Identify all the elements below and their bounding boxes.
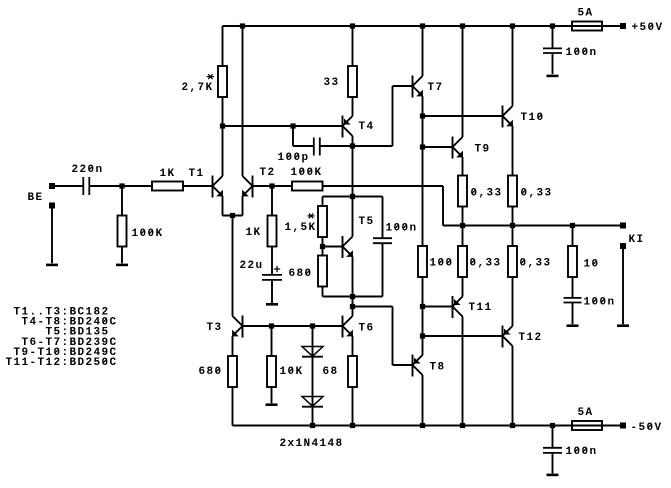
wire emitter join to T3 collector xyxy=(232,216,234,317)
svg-text:T9: T9 xyxy=(475,143,491,155)
node T11 base takeoff xyxy=(420,304,425,309)
wire to T8 base xyxy=(353,307,413,366)
ground 10K xyxy=(266,403,278,406)
svg-text:680: 680 xyxy=(199,366,223,378)
terminal KI return xyxy=(620,243,626,249)
svg-text:T2: T2 xyxy=(260,167,276,179)
node T8 feed xyxy=(350,304,355,309)
diode D2 xyxy=(302,357,323,426)
wire T5 base xyxy=(323,246,343,248)
capacitor 100n KI xyxy=(564,298,582,324)
plus 22u xyxy=(274,266,280,272)
svg-text:-50V: -50V xyxy=(631,422,663,434)
resistor 68 xyxy=(348,336,357,426)
resistor 2,7K xyxy=(218,66,227,97)
transistor T8 xyxy=(413,355,423,377)
wire T6 collector xyxy=(352,307,354,317)
wire to T10 base xyxy=(423,115,503,117)
transistor T1 xyxy=(213,176,223,198)
svg-text:220n: 220n xyxy=(72,164,104,176)
node 100p takeoff xyxy=(290,123,295,128)
asterisk 1,5K xyxy=(308,213,315,218)
node T2 base / 1K divider xyxy=(269,183,274,188)
terminal +50V xyxy=(620,23,626,29)
svg-text:100: 100 xyxy=(430,258,454,270)
resistor 680 left xyxy=(228,336,237,426)
transistor T5 xyxy=(343,236,353,258)
wire KI return xyxy=(622,249,624,324)
svg-text:T4: T4 xyxy=(359,121,375,133)
svg-text:0,33: 0,33 xyxy=(520,258,552,270)
terminal BE signal xyxy=(49,183,55,189)
node rail / T7 collector xyxy=(420,23,425,28)
wire T2 base to 100K xyxy=(253,185,293,187)
node bias top xyxy=(350,194,355,199)
wire emitter join xyxy=(223,215,243,217)
svg-text:2x1N4148: 2x1N4148 xyxy=(280,438,344,450)
svg-text:0,33: 0,33 xyxy=(471,188,503,200)
svg-text:2,7K: 2,7K xyxy=(182,82,214,94)
node rail / 68 xyxy=(350,423,355,428)
transistor T4 xyxy=(343,116,353,138)
svg-text:33: 33 xyxy=(324,77,340,89)
diode D1 xyxy=(302,326,323,357)
ground 100K input xyxy=(116,264,128,267)
wire -50V rail xyxy=(233,425,621,427)
wire 1,5K top to bias column xyxy=(323,196,353,198)
wire bias bottom row xyxy=(323,296,383,298)
svg-text:100n: 100n xyxy=(386,223,418,235)
wire to T11 base xyxy=(423,306,453,308)
wire to T9 base xyxy=(423,146,453,148)
wire T2 emitter xyxy=(242,196,244,216)
svg-text:100K: 100K xyxy=(132,228,164,240)
resistor 100K input xyxy=(118,186,127,263)
resistor 680 mid xyxy=(318,256,327,297)
resistor 0,33 upper right xyxy=(508,126,517,226)
svg-text:T10: T10 xyxy=(521,112,545,124)
ground 22u xyxy=(266,303,278,306)
svg-text:T1: T1 xyxy=(189,168,205,180)
svg-text:BE: BE xyxy=(28,192,44,204)
resistor 1K divider xyxy=(268,186,277,275)
wire 100p left xyxy=(293,126,313,146)
svg-text:1K: 1K xyxy=(160,168,176,180)
ground 100n bottom xyxy=(547,474,559,477)
transistor T2 xyxy=(242,176,252,198)
svg-text:T3: T3 xyxy=(207,322,223,334)
wire T11 collector xyxy=(462,317,464,426)
resistor 0,33 lower right xyxy=(508,226,517,278)
wire bias top row right xyxy=(353,196,383,198)
svg-text:0,33: 0,33 xyxy=(521,188,553,200)
node emitter join xyxy=(230,213,235,218)
asterisk 2,7K xyxy=(207,74,214,79)
node T1 collector / 2,7K xyxy=(220,123,225,128)
wire BE ground xyxy=(51,209,53,264)
ground BE xyxy=(46,264,58,267)
svg-text:1,5K: 1,5K xyxy=(285,222,317,234)
svg-text:0,33: 0,33 xyxy=(470,258,502,270)
svg-text:100n: 100n xyxy=(584,297,616,309)
node input bias xyxy=(119,183,124,188)
wire T8 emitter xyxy=(422,336,424,355)
wire +50V rail xyxy=(223,25,621,27)
node rail / T2 collector xyxy=(240,23,245,28)
node rail / T8 collector xyxy=(420,423,425,428)
wire T11 emitter xyxy=(462,277,464,297)
transistor T9 xyxy=(453,137,463,159)
capacitor 100n top xyxy=(543,26,562,74)
svg-text:T6: T6 xyxy=(359,323,375,335)
svg-text:100n: 100n xyxy=(566,47,598,59)
svg-text:100n: 100n xyxy=(566,446,598,458)
node T4 collector / 100p xyxy=(350,143,355,148)
zero slashes (DOS font style) xyxy=(55,24,652,452)
svg-text:22u: 22u xyxy=(240,260,264,272)
fuse 5A bottom xyxy=(572,421,602,430)
node T10 base takeoff xyxy=(420,113,425,118)
node KI / 10 xyxy=(570,223,575,228)
wire 1K to T1 base xyxy=(183,185,213,187)
svg-text:1K: 1K xyxy=(246,227,262,239)
wire T2 collector to rail xyxy=(242,26,244,176)
capacitor 100n bias xyxy=(373,197,392,297)
svg-text:T5: T5 xyxy=(359,216,375,228)
transistor T6 xyxy=(343,316,353,338)
wire feedback to KI xyxy=(323,186,444,226)
node rail / 33 resistor xyxy=(350,23,355,28)
node T12 base takeoff xyxy=(420,333,425,338)
resistor 10 xyxy=(568,226,577,298)
svg-text:T8: T8 xyxy=(430,362,446,374)
capacitor 100p xyxy=(314,138,320,156)
wire KI output line xyxy=(443,225,620,227)
fuse 5A top xyxy=(572,22,602,31)
svg-text:5A: 5A xyxy=(578,7,594,19)
transistor T12 xyxy=(503,326,513,348)
ground 100n KI xyxy=(567,324,579,327)
wire T12 collector xyxy=(512,346,514,426)
wire T7 collector xyxy=(422,26,424,76)
node rail / 100n top xyxy=(550,23,555,28)
node diode takeoff xyxy=(310,323,315,328)
terminal BE ground xyxy=(49,203,55,209)
resistor 33 xyxy=(348,26,357,116)
resistor 100 xyxy=(418,246,427,336)
node rail / T10 collector xyxy=(510,23,515,28)
node KI / 0,33 left xyxy=(460,223,465,228)
svg-text:T7: T7 xyxy=(428,82,444,94)
node T9 base takeoff xyxy=(420,144,425,149)
node rail / T9 collector xyxy=(460,23,465,28)
resistor 10K xyxy=(267,326,276,403)
resistor 1K input xyxy=(152,182,183,191)
wire T8 collector xyxy=(422,375,424,426)
capacitor 220n xyxy=(83,177,89,195)
wire T9 collector xyxy=(462,26,464,137)
wire T12 emitter xyxy=(512,277,514,326)
svg-text:T11: T11 xyxy=(469,302,493,314)
resistor 0,33 upper left xyxy=(458,157,467,226)
capacitor 100n bottom xyxy=(543,426,562,474)
svg-text:T11-T12:BD250C: T11-T12:BD250C xyxy=(6,357,118,369)
wire T1 emitter xyxy=(222,196,224,216)
terminal -50V xyxy=(620,423,626,429)
node rail / T12 collector xyxy=(510,423,515,428)
node rail / 100n bottom xyxy=(550,423,555,428)
wire T1 collector column xyxy=(222,26,224,176)
wire T4 collector column xyxy=(352,136,354,237)
ground 100n top xyxy=(547,75,559,78)
transistor T10 xyxy=(503,106,513,128)
wire 220n to 1K xyxy=(90,185,152,187)
node T5 base xyxy=(320,244,325,249)
resistor 100K feedback xyxy=(292,182,323,191)
node KI / 0,33 right xyxy=(510,223,515,228)
wire base bias row y=126 xyxy=(223,125,343,127)
wire T10 collector xyxy=(512,26,514,106)
wire 100p right xyxy=(320,145,352,147)
transistor T11 xyxy=(453,296,463,318)
terminal KI xyxy=(620,223,626,229)
transistor T3 xyxy=(232,316,242,338)
svg-text:680: 680 xyxy=(289,268,313,280)
svg-text:KI: KI xyxy=(629,234,645,246)
node rail / diodes xyxy=(310,423,315,428)
node rail / T11 collector xyxy=(460,423,465,428)
svg-text:68: 68 xyxy=(323,366,339,378)
ground KI return xyxy=(617,324,629,327)
node bias bottom xyxy=(350,294,355,299)
node 10K takeoff xyxy=(269,323,274,328)
svg-text:100p: 100p xyxy=(278,152,310,164)
resistor 1,5K xyxy=(318,197,327,256)
transistor T7 xyxy=(413,76,423,98)
wire T3 T6 base row xyxy=(243,325,343,327)
svg-text:+50V: +50V xyxy=(632,22,664,34)
wire T7 emitter column xyxy=(422,96,424,246)
capacitor 22u xyxy=(262,275,282,303)
wire to T7 base xyxy=(353,86,413,146)
resistor 0,33 lower left xyxy=(458,226,467,278)
svg-text:100K: 100K xyxy=(291,167,323,179)
wire to T12 base xyxy=(423,335,503,337)
svg-text:T12: T12 xyxy=(519,332,543,344)
svg-text:5A: 5A xyxy=(578,407,594,419)
wire T5 emitter column xyxy=(352,257,354,307)
svg-text:10K: 10K xyxy=(280,366,304,378)
svg-text:10: 10 xyxy=(584,259,600,271)
wire BE to 220n xyxy=(52,185,83,187)
